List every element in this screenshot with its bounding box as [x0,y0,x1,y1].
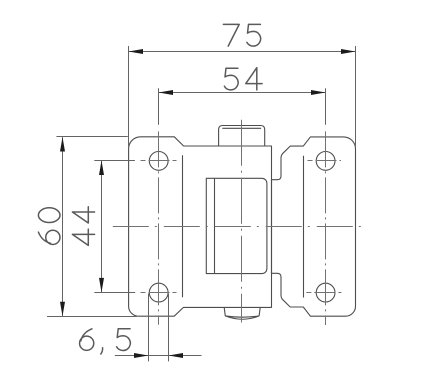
arrow 60 bottom [60,302,65,317]
pin top cap [219,126,265,147]
pin top cap inner edge [222,127,261,129]
dim 6,5 line [115,355,202,357]
left plate with knuckle column outline [129,137,272,316]
hole bottom-left [149,283,168,302]
knuckle roll tangent line [214,178,216,273]
hole bottom-right [316,283,335,302]
centerline left hole column [158,131,160,324]
arrow 60 top [60,137,65,152]
arrow 44 top [99,161,104,176]
pin bottom cap [224,308,260,317]
dim 54 extension lines [159,88,326,125]
centerline main vertical (pin axis) [241,120,243,323]
hole top-left [149,152,168,171]
label 54 [224,68,262,90]
centerline main horizontal [113,226,365,228]
centerline top-left hole horizontal [141,160,177,162]
dim 60 extension lines [47,137,137,317]
arrow 54 right [311,90,326,95]
arrow 75 left [129,49,144,54]
dim 54 line [159,92,326,94]
right plate outline [272,137,356,316]
arrow 44 bottom [99,278,104,293]
label 44 (rotated) [72,207,94,246]
dim 75 line [129,51,356,53]
dim 60 line [62,137,64,316]
hole top-right [316,152,335,171]
label 6,5 [80,329,131,354]
dim 6,5 extension lines [149,294,169,362]
arrow 6,5 left (pointing right) [134,353,149,358]
centerline bottom-right hole horizontal [306,292,341,294]
centerline right hole column [325,131,327,325]
centerline top-right hole horizontal [308,160,342,162]
pin bottom cap outer arc [225,316,259,319]
dim 75 extension lines [129,46,356,149]
middle knuckle front rectangle [206,178,267,273]
arrow 54 left [159,90,174,95]
centerline bottom-left hole horizontal [141,292,177,294]
right leaf fold tangent line [303,156,305,298]
arrow 6,5 right (pointing left) [169,353,184,358]
dim 44 line [101,161,103,292]
label 60 (rotated) [38,208,60,245]
label 75 [223,24,260,46]
arrow 75 right [341,49,356,54]
dim 44 extension lines [94,161,135,293]
left leaf fold tangent line [182,155,184,297]
pin bottom cap inner arc [225,316,259,317]
